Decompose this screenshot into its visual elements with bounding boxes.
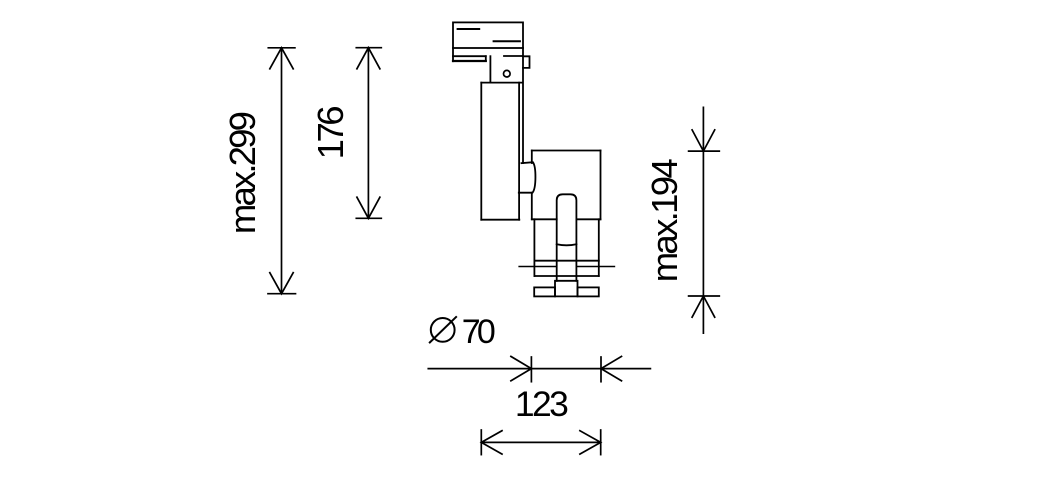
dimension 123 left arrow <box>481 431 502 454</box>
adapter right short line <box>504 55 522 57</box>
trim ring left <box>533 219 535 276</box>
trim ring right <box>598 219 600 276</box>
adapter inner line right <box>494 40 520 42</box>
adapter ledge right edge <box>485 56 487 61</box>
dimension 123 right tick <box>600 430 602 455</box>
head right <box>600 151 602 220</box>
dimension max.299 bottom tick <box>268 293 296 295</box>
adapter left edge lower <box>452 48 454 61</box>
dimension 176 bottom arrow <box>357 197 380 218</box>
head left upper <box>531 151 533 164</box>
svg-text:max.299: max.299 <box>222 111 263 234</box>
dimension 123 left tick <box>480 430 482 455</box>
head bottom left segment <box>532 218 557 220</box>
flange right <box>578 287 599 296</box>
dimension dia70 right arrow <box>601 356 622 380</box>
lamp stem <box>557 194 577 280</box>
adapter ledge bottom <box>453 60 486 62</box>
cross line right <box>576 266 614 268</box>
dimension max.194 bottom tick <box>689 295 720 297</box>
flange left <box>534 287 555 296</box>
adapter right edge <box>522 48 524 163</box>
gear housing left edge <box>480 83 482 220</box>
locking tab <box>523 56 530 68</box>
label dia symbol <box>429 316 457 343</box>
trim ring bottom <box>534 275 598 277</box>
dimension 123 right arrow <box>580 431 601 454</box>
dimension 176 top arrow <box>357 48 380 69</box>
dimension 176 top tick <box>356 47 381 49</box>
gear housing top <box>481 82 522 84</box>
track adapter housing <box>453 22 523 48</box>
dimension dia70 left tick <box>530 357 532 382</box>
svg-text:70: 70 <box>462 313 496 351</box>
screw hole <box>504 70 511 77</box>
dimension max.194 line <box>702 107 704 333</box>
gear housing right edge <box>518 83 520 220</box>
adapter inner line left <box>458 28 480 30</box>
dimension max.194 top arrow <box>692 130 715 151</box>
dimension 176 bottom tick <box>356 217 381 219</box>
dimension 176 line <box>367 48 369 219</box>
svg-text:max.194: max.194 <box>644 158 685 282</box>
head top <box>532 150 601 152</box>
dimension max.194 top tick <box>689 150 720 152</box>
head left lower <box>531 193 533 220</box>
dimension max.299 top arrow <box>270 48 293 69</box>
dimension dia70 right tick <box>600 357 602 382</box>
neck left edge <box>489 56 491 82</box>
lamp base <box>555 281 578 297</box>
dimension max.299 line <box>281 48 283 294</box>
dimension dia70 left arrow <box>511 356 532 380</box>
dimension max.194 bottom arrow <box>692 296 715 317</box>
head bottom right segment <box>576 218 600 220</box>
adapter ledge top <box>453 55 486 57</box>
dimension max.299 bottom arrow <box>270 273 293 294</box>
hinge knuckle <box>519 162 536 193</box>
dimension dia70 line <box>428 368 650 370</box>
dimension 123 line <box>481 441 600 443</box>
dimension max.299 top tick <box>268 47 295 49</box>
svg-text:123: 123 <box>515 384 569 424</box>
cross line left <box>519 266 557 268</box>
trim ring line <box>534 260 598 262</box>
svg-text:176: 176 <box>310 105 351 159</box>
stem inner curve <box>557 244 577 245</box>
gear housing bottom <box>481 219 519 221</box>
